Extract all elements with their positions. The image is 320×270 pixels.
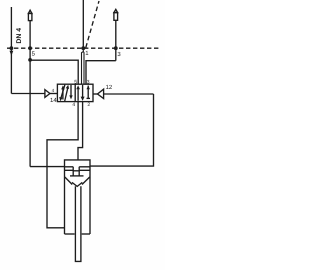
wire exhaust 5 vertical: [29, 21, 31, 167]
node dot rail x116: [114, 46, 118, 50]
piston center verticals: [73, 167, 79, 176]
piston lower seal left: [65, 177, 72, 185]
svg-text:14: 14: [50, 97, 57, 104]
piston crossbar: [73, 170, 79, 172]
valve right position arrows: [76, 85, 90, 101]
silencer S2: [114, 9, 118, 12]
node 1 junction dot: [81, 46, 85, 50]
cylinder C1 body: [65, 160, 91, 234]
wire DN4 line: [10, 7, 12, 94]
svg-text:4: 4: [52, 88, 55, 93]
svg-text:12: 12: [106, 84, 113, 91]
wire port3 branch: [86, 61, 116, 84]
svg-text:2: 2: [87, 102, 90, 108]
wire port5 branch: [30, 60, 78, 84]
pilot triangle 12: [98, 89, 104, 98]
node corner dot: [28, 58, 32, 62]
piston seal lines right: [79, 167, 90, 171]
wire port4 loop to cylinder bottom: [47, 102, 78, 228]
wire pilot 12 line: [104, 93, 154, 95]
piston seal lines left: [65, 167, 74, 171]
wire port2 to cylinder top: [78, 102, 83, 160]
valve V1 body: [57, 84, 93, 101]
node junction dot left: [10, 46, 14, 50]
dashed diagonal branch line: [86, 1, 99, 48]
piston rod: [75, 186, 81, 261]
pilot triangle 14: [45, 90, 50, 98]
supply rail (dashed air line): [7, 47, 161, 49]
flow arrow down: [10, 51, 14, 56]
piston wide bar: [70, 175, 84, 177]
piston lower seal right: [82, 177, 90, 185]
pilot line 14: [11, 93, 45, 95]
wire valve to pilot 12: [93, 93, 98, 95]
wire right loop pilot12 to cylinder: [90, 94, 154, 166]
svg-text:DN 4: DN 4: [16, 28, 23, 44]
wire supply line P: [82, 0, 84, 48]
node dot rail x30: [28, 46, 32, 50]
wire supply split to valve: [82, 48, 85, 84]
wire pilot to valve: [50, 93, 58, 95]
wire exhaust 3 vertical: [115, 20, 117, 60]
piston chevron: [72, 182, 82, 186]
silencer S1: [28, 10, 32, 13]
svg-text:4: 4: [72, 102, 75, 108]
valve left position arrows: [59, 85, 72, 102]
wire left feed to cylinder: [30, 166, 64, 168]
